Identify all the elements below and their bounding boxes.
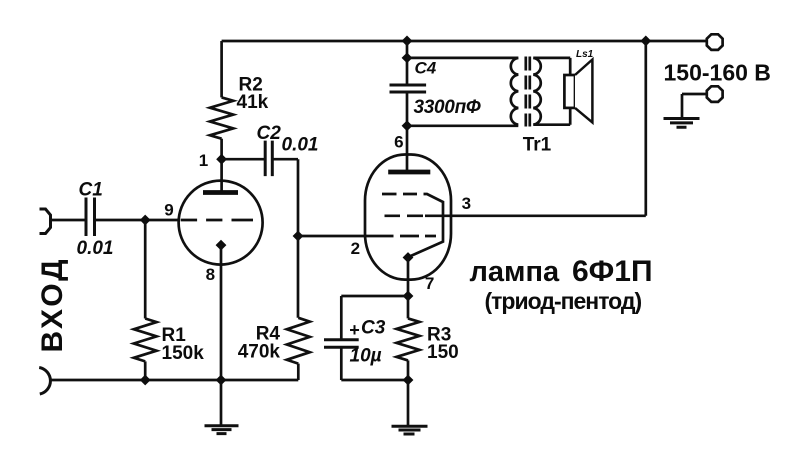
wire grid to pentode xyxy=(298,235,394,238)
pentode anode plate bar xyxy=(388,170,430,175)
wire to transformer primary bottom xyxy=(407,124,518,127)
node R3 bottom junction xyxy=(403,375,414,386)
node pin7 junction xyxy=(403,291,414,302)
transformer Tr1 primary winding xyxy=(511,58,518,125)
input connector lower xyxy=(39,368,50,395)
wire R3 bottom lead xyxy=(407,360,410,380)
svg-text:ВХОД: ВХОД xyxy=(36,256,69,352)
node pin1 junction xyxy=(216,154,227,165)
svg-text:C1: C1 xyxy=(79,180,103,201)
node top rail right junction xyxy=(640,36,651,47)
wire C4 vertical top xyxy=(406,41,409,85)
capacitor C1 xyxy=(86,198,95,237)
wire speaker feed vertical xyxy=(569,58,572,125)
wire R4 top lead xyxy=(297,236,300,318)
capacitor C3 plates xyxy=(324,340,359,348)
tube triode V1a envelope xyxy=(179,181,263,265)
transformer Tr1 secondary winding xyxy=(533,58,540,125)
wire ground stem triode xyxy=(220,380,223,425)
wire C3 top branch xyxy=(341,295,408,298)
svg-text:1: 1 xyxy=(199,151,208,170)
svg-text:150: 150 xyxy=(427,342,459,363)
svg-text:8: 8 xyxy=(206,265,215,284)
node top rail C4 junction xyxy=(402,36,413,47)
svg-text:C4: C4 xyxy=(415,59,437,78)
wire C2 vertical down xyxy=(297,159,300,236)
speaker Ls1 body xyxy=(564,75,575,108)
capacitor C2 xyxy=(265,141,272,177)
wire screen grid pin3 to right vertical xyxy=(425,214,646,217)
wire C3 left vertical upper xyxy=(340,296,343,339)
resistor R4 xyxy=(287,318,310,364)
wire C2 to vertical xyxy=(272,158,298,161)
svg-text:0.01: 0.01 xyxy=(77,238,114,259)
triode cathode dot xyxy=(216,240,227,251)
transformer Tr1 core xyxy=(526,57,530,127)
wire C3 bottom branch xyxy=(341,379,408,382)
svg-text:C3: C3 xyxy=(361,318,386,339)
wire ground stem R3 xyxy=(407,380,410,425)
terminal B+ xyxy=(707,34,723,50)
svg-text:2: 2 xyxy=(351,239,360,258)
input connector upper xyxy=(40,209,51,234)
wire top supply rail xyxy=(222,40,707,43)
pentode suppressor to cathode lead xyxy=(410,194,444,257)
svg-text:6Ф1П: 6Ф1П xyxy=(572,255,653,288)
ground R3 xyxy=(392,426,428,434)
wire C3 left vertical lower xyxy=(340,347,343,380)
wire pentode plate stem xyxy=(406,126,409,170)
svg-text:150k: 150k xyxy=(162,343,205,364)
terminal common xyxy=(707,86,723,102)
svg-text:3300пФ: 3300пФ xyxy=(414,97,481,118)
svg-text:41k: 41k xyxy=(237,92,269,113)
svg-text:470k: 470k xyxy=(238,342,281,363)
svg-text:3: 3 xyxy=(462,194,471,213)
svg-text:9: 9 xyxy=(164,201,173,220)
triode anode plate bar xyxy=(203,190,238,195)
resistor R1 xyxy=(134,319,157,362)
wire triode cathode down xyxy=(220,245,223,380)
svg-text:C2: C2 xyxy=(257,123,282,144)
svg-text:150-160 В: 150-160 В xyxy=(664,60,771,86)
svg-text:лампа: лампа xyxy=(470,256,561,288)
node R1 bottom junction xyxy=(140,375,151,386)
pentode suppressor grid dashes xyxy=(382,193,417,196)
node transformer primary bottom junction xyxy=(402,120,413,131)
resistor R3 xyxy=(397,318,420,360)
svg-text:10µ: 10µ xyxy=(350,346,382,367)
tube pentode V1b envelope xyxy=(365,155,451,280)
svg-text:0.01: 0.01 xyxy=(282,134,319,155)
svg-text:(триод-пентод): (триод-пентод) xyxy=(485,288,642,314)
wire C1 to node xyxy=(95,219,179,222)
node C1/R1/grid junction xyxy=(140,215,151,226)
wire to transformer primary top xyxy=(407,57,518,60)
wire R4 bottom lead xyxy=(297,364,300,380)
node transformer primary top junction xyxy=(402,53,413,64)
wire ground stem terminal xyxy=(681,94,684,118)
wire pin1 to C2 xyxy=(222,158,266,161)
ground triode cathode xyxy=(205,426,239,434)
node C2/R4/grid2 junction xyxy=(293,231,304,242)
ground terminal xyxy=(664,119,700,128)
wire triode plate stem xyxy=(220,159,223,190)
wire R3 top lead xyxy=(407,296,410,318)
pentode control grid dashes xyxy=(400,235,436,238)
svg-text:6: 6 xyxy=(394,132,403,151)
svg-text:Tr1: Tr1 xyxy=(523,135,552,156)
wire secondary top xyxy=(533,57,570,60)
pentode cathode dot xyxy=(403,252,414,263)
wire R2 bottom lead xyxy=(220,139,223,160)
wire C4 vertical bottom xyxy=(406,92,409,126)
svg-text:Ls1: Ls1 xyxy=(576,49,594,60)
wire R2 top lead xyxy=(220,41,223,97)
capacitor C4 plates xyxy=(390,85,427,92)
wire R1 bottom lead xyxy=(144,361,147,380)
resistor R2 xyxy=(210,97,233,138)
wire right vertical xyxy=(644,41,647,216)
wire bottom rail left xyxy=(50,379,298,382)
node cathode ground junction xyxy=(216,375,227,386)
triode grid dashed line xyxy=(181,219,253,222)
wire R1 top lead xyxy=(144,220,147,319)
pentode screen grid dashes xyxy=(385,214,424,217)
svg-text:+: + xyxy=(349,320,360,340)
wire secondary bottom xyxy=(533,123,570,126)
wire terminal 2 lead xyxy=(682,93,707,96)
speaker Ls1 horn xyxy=(575,60,592,123)
svg-text:7: 7 xyxy=(425,274,434,293)
wire pentode cathode down xyxy=(407,258,410,297)
wire input to C1 xyxy=(51,219,87,222)
